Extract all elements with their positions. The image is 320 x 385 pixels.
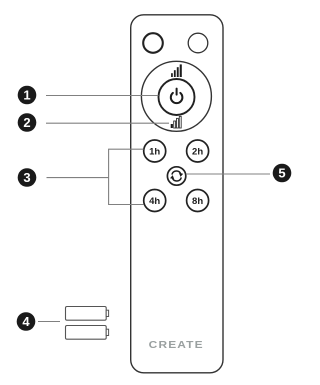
power button ring xyxy=(159,79,195,115)
power icon xyxy=(171,89,183,104)
remote body xyxy=(131,15,223,373)
leader line 4 xyxy=(38,321,60,323)
signal icon dim xyxy=(171,116,182,128)
svg-text:5: 5 xyxy=(278,166,285,181)
leader line 3 xyxy=(47,177,109,179)
bracket vertical xyxy=(108,149,110,205)
leader line 5 xyxy=(186,173,270,175)
signal icon top xyxy=(171,64,182,77)
svg-text:3: 3 xyxy=(23,170,30,185)
svg-text:4h: 4h xyxy=(149,196,160,207)
callout 4 xyxy=(17,312,36,331)
battery 1 xyxy=(66,307,109,321)
svg-text:1h: 1h xyxy=(149,147,160,158)
svg-text:2: 2 xyxy=(23,115,30,130)
leader line 1 xyxy=(46,95,158,97)
callout 3 xyxy=(18,168,37,187)
button 4h xyxy=(144,190,166,212)
battery 2 xyxy=(66,326,109,340)
svg-text:8h: 8h xyxy=(192,196,203,207)
leader line 2 xyxy=(46,122,169,124)
svg-text:2h: 2h xyxy=(192,147,203,158)
svg-text:CREATE: CREATE xyxy=(149,339,204,351)
button 2h xyxy=(187,140,209,162)
button 8h xyxy=(187,190,209,212)
cycle button xyxy=(167,167,185,185)
svg-text:1: 1 xyxy=(23,88,30,103)
top-left button xyxy=(143,33,163,53)
callout 5 xyxy=(273,164,292,183)
callout 2 xyxy=(18,113,37,132)
dial outer ring xyxy=(141,61,211,131)
callout 1 xyxy=(18,86,37,105)
bracket top line xyxy=(109,148,144,150)
button 1h xyxy=(144,140,166,162)
svg-text:4: 4 xyxy=(22,314,30,329)
top-right button xyxy=(188,33,208,53)
cycle icon xyxy=(170,171,183,181)
bracket bottom line xyxy=(109,204,144,206)
